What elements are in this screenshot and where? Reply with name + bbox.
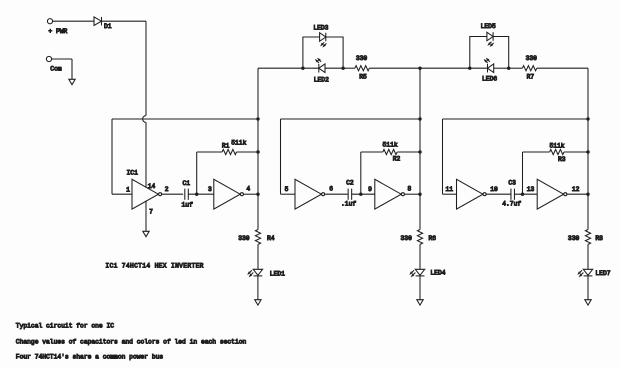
note line 3 (16, 354, 164, 361)
svg-text:13: 13 (527, 186, 535, 193)
node output section 2 (418, 193, 421, 196)
svg-text:C1: C1 (183, 180, 191, 187)
svg-text:511k: 511k (549, 142, 564, 149)
svg-text:Com: Com (50, 66, 62, 73)
wire hop over feedback (143, 116, 146, 123)
wire (303, 67, 319, 69)
wire (567, 193, 588, 195)
resistor R8 330 (568, 230, 603, 245)
svg-text:511k: 511k (383, 141, 398, 148)
svg-text:10: 10 (490, 186, 498, 193)
wire (53, 20, 94, 22)
wire (343, 67, 355, 69)
wire LED3 branch (303, 37, 320, 68)
svg-text:3: 3 (208, 186, 212, 193)
LED6 (482, 59, 497, 83)
terminal + PWR (47, 19, 67, 35)
wire (257, 244, 259, 269)
node (341, 67, 344, 70)
resistor R4 330 (238, 230, 275, 245)
svg-text:.1uf: .1uf (341, 201, 356, 208)
note line 2 (16, 338, 247, 345)
wire (162, 193, 184, 195)
resistor R1 511k (222, 140, 247, 155)
wire input (112, 193, 132, 195)
svg-text:R7: R7 (527, 74, 535, 81)
svg-text:Typical circuit for one IC: Typical circuit for one IC (16, 323, 114, 330)
wire (486, 193, 511, 195)
wire pin 7 to ground (145, 201, 147, 232)
wire (326, 37, 343, 68)
capacitor C2 (341, 180, 356, 208)
node C1/R1/pin3 junction (195, 193, 198, 196)
op-amp U1D inverter pins 9-8 (368, 179, 411, 209)
svg-text:330: 330 (356, 55, 368, 62)
wire VCC (102, 21, 147, 115)
svg-text:R6: R6 (429, 235, 437, 242)
LED2 (314, 59, 329, 84)
wire input (443, 193, 457, 195)
svg-text:9: 9 (368, 186, 372, 193)
wire (564, 151, 588, 153)
wire (352, 193, 375, 195)
wire LED5 branch (470, 37, 487, 69)
node (586, 117, 589, 120)
wire feedback section 1 (112, 119, 258, 194)
wire (494, 67, 509, 69)
svg-text:11: 11 (446, 186, 454, 193)
svg-text:C3: C3 (508, 180, 516, 187)
LED3 (313, 24, 328, 46)
svg-text:IC1: IC1 (127, 169, 139, 176)
svg-text:C2: C2 (346, 180, 354, 187)
svg-text:IC1 74HCT14 HEX INVERTER: IC1 74HCT14 HEX INVERTER (105, 262, 203, 269)
wire (509, 67, 523, 69)
wire top bus (258, 67, 303, 69)
svg-text:330: 330 (568, 235, 580, 242)
wire (470, 67, 488, 69)
op-amp U1A inverter IC1 pins 1-2 (126, 169, 169, 215)
diode D1 (94, 17, 112, 30)
wire VCC to pin 14 (145, 122, 147, 187)
wire (419, 276, 421, 300)
resistor R6 330 (401, 230, 437, 245)
svg-text:4: 4 (246, 186, 250, 193)
svg-text:6: 6 (329, 185, 333, 192)
svg-text:5: 5 (285, 186, 289, 193)
resistor R3 511k (549, 142, 565, 163)
wire (257, 276, 259, 300)
svg-text:LED1: LED1 (270, 270, 285, 277)
wire R1 branch (197, 152, 222, 194)
svg-text:+ PWR: + PWR (48, 28, 67, 35)
svg-text:R5: R5 (359, 74, 367, 81)
op-amp U1E inverter pins 11-10 (446, 179, 498, 209)
node (507, 67, 510, 70)
node (256, 150, 259, 153)
ground (585, 300, 591, 305)
node (418, 150, 421, 153)
ground (143, 231, 149, 236)
LED1 (248, 269, 285, 277)
ground (69, 79, 75, 84)
resistor R5 330 (355, 55, 369, 81)
node C3/R3/pin13 junction (521, 193, 524, 196)
svg-text:R1: R1 (222, 142, 230, 149)
svg-text:LED2: LED2 (314, 77, 329, 84)
svg-text:R2: R2 (393, 156, 401, 163)
wire feedback section 2 (281, 119, 421, 194)
node output section 1 (256, 193, 259, 196)
svg-text:330: 330 (526, 55, 538, 62)
svg-text:R8: R8 (595, 235, 603, 242)
svg-text:1: 1 (126, 186, 130, 193)
wire (369, 67, 420, 69)
node feedback/output junction (256, 117, 259, 120)
svg-text:12: 12 (572, 186, 580, 193)
LED4 (410, 269, 445, 276)
svg-text:R3: R3 (558, 156, 566, 163)
wire input (281, 193, 296, 195)
wire (404, 193, 420, 195)
svg-text:330: 330 (401, 235, 413, 242)
ground (255, 300, 261, 305)
wire (587, 244, 589, 269)
svg-text:LED4: LED4 (430, 269, 445, 276)
svg-text:8: 8 (408, 186, 412, 193)
wire (237, 151, 259, 153)
svg-text:14: 14 (148, 183, 156, 190)
svg-text:1uf: 1uf (182, 201, 194, 208)
wire output bus section 3 (587, 68, 589, 229)
svg-text:Four 74HCT14's share a common: Four 74HCT14's share a common power bus (16, 354, 164, 361)
node (468, 67, 471, 70)
label IC1 74HCT14 HEX INVERTER (105, 262, 203, 269)
svg-text:LED7: LED7 (595, 270, 610, 277)
op-amp U1F inverter pins 13-12 (527, 179, 580, 209)
wire (325, 67, 343, 69)
node (301, 67, 304, 70)
capacitor C3 (502, 180, 521, 208)
node (418, 117, 421, 120)
svg-text:2: 2 (165, 186, 169, 193)
wire (419, 244, 421, 269)
svg-text:D1: D1 (104, 23, 112, 30)
svg-text:Change values of capacitors an: Change values of capacitors and colors o… (16, 338, 247, 345)
svg-text:330: 330 (238, 235, 250, 242)
svg-text:LED5: LED5 (481, 23, 496, 30)
resistor R7 330 (522, 55, 537, 81)
svg-text:4.7uf: 4.7uf (502, 200, 521, 207)
ground (417, 300, 423, 305)
op-amp U1C inverter pins 5-6 (285, 179, 334, 209)
wire output bus section 2 (419, 68, 421, 229)
wire (397, 151, 420, 153)
svg-text:LED6: LED6 (482, 76, 497, 83)
wire feedback section 3 (443, 119, 589, 194)
svg-text:511k: 511k (231, 140, 246, 147)
wire (325, 193, 349, 195)
wire (52, 59, 72, 79)
terminal Com (46, 56, 61, 72)
wire R3 branch (523, 152, 550, 194)
op-amp U1B inverter pins 3-4 (208, 179, 250, 209)
capacitor C1 (182, 180, 194, 209)
svg-text:7: 7 (149, 208, 153, 215)
wire (537, 67, 588, 69)
note line 1 (16, 323, 114, 330)
wire output bus section 1 (257, 68, 259, 229)
LED5 (481, 23, 496, 46)
node output section 3 (586, 193, 589, 196)
LED7 (578, 269, 610, 277)
wire (243, 193, 258, 195)
wire (188, 193, 214, 195)
node C2/R2/pin9 junction (359, 193, 362, 196)
wire (514, 193, 537, 195)
svg-text:R4: R4 (267, 235, 275, 242)
wire (587, 276, 589, 300)
resistor R2 511k (383, 141, 401, 162)
node (586, 150, 589, 153)
node (418, 67, 421, 70)
wire (420, 67, 470, 69)
wire R2 branch (361, 152, 383, 194)
svg-text:LED3: LED3 (313, 24, 328, 31)
wire (493, 37, 509, 69)
